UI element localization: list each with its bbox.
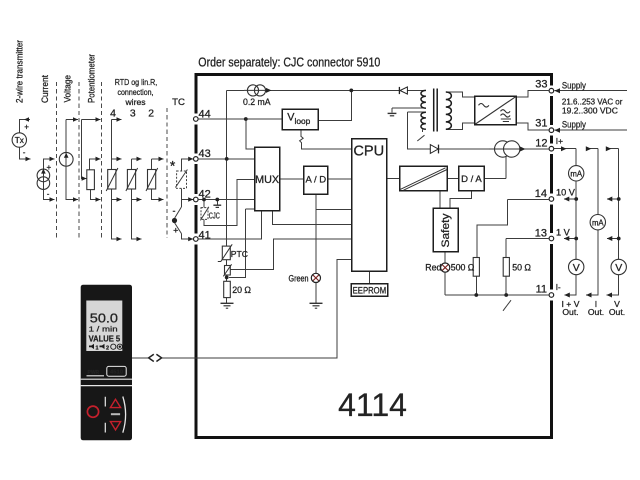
svg-text:+: + [173, 226, 178, 236]
svg-text:500 Ω: 500 Ω [451, 262, 475, 272]
svg-text:CPU: CPU [353, 143, 384, 159]
svg-text:0.2 mA: 0.2 mA [243, 97, 271, 107]
svg-text:mA: mA [570, 170, 582, 179]
svg-text:mA: mA [592, 218, 604, 227]
svg-text:Green: Green [289, 274, 309, 284]
svg-text:Current: Current [40, 75, 50, 103]
svg-text:I+: I+ [556, 136, 563, 146]
svg-text:RTD og lin.R,: RTD og lin.R, [115, 77, 158, 87]
svg-text:11: 11 [536, 284, 547, 296]
svg-text:Order separately: CJC connecto: Order separately: CJC connector 5910 [198, 54, 380, 69]
svg-text:TC: TC [172, 97, 185, 108]
svg-text:V: V [573, 262, 580, 274]
svg-text:V: V [615, 262, 622, 274]
svg-text:20 Ω: 20 Ω [232, 285, 251, 295]
svg-text:Out.: Out. [562, 307, 578, 317]
svg-text:PWR: PWR [88, 370, 100, 376]
svg-text:-: - [47, 190, 50, 199]
svg-text:+: + [47, 163, 52, 172]
svg-text:D / A: D / A [461, 174, 482, 185]
svg-text:4: 4 [110, 109, 116, 120]
svg-text:EEPROM: EEPROM [353, 284, 387, 295]
svg-text:+: + [24, 123, 29, 132]
svg-text:Supply: Supply [562, 120, 586, 130]
svg-text:-: - [173, 206, 176, 216]
svg-text:MUX: MUX [255, 174, 279, 186]
svg-text:14: 14 [535, 188, 547, 200]
svg-text:1 / min: 1 / min [89, 325, 118, 334]
svg-text:PTC: PTC [231, 249, 248, 259]
svg-text:4114: 4114 [338, 387, 407, 423]
svg-text:12: 12 [535, 138, 547, 150]
svg-text:*: * [170, 158, 176, 174]
svg-text:A / D: A / D [306, 175, 327, 186]
svg-text:-: - [23, 148, 26, 157]
svg-text:50.0: 50.0 [90, 311, 118, 326]
svg-text:19.2..300 VDC: 19.2..300 VDC [562, 106, 618, 116]
svg-text:connection,: connection, [118, 87, 154, 97]
svg-text:Out.: Out. [609, 307, 625, 317]
svg-text:33: 33 [535, 78, 547, 90]
svg-text:Voltage: Voltage [63, 75, 73, 103]
svg-text:Supply: Supply [562, 80, 586, 90]
svg-text:Red: Red [425, 262, 441, 272]
svg-text:41: 41 [199, 230, 211, 242]
svg-text:3: 3 [130, 109, 136, 120]
svg-text:10 V: 10 V [556, 188, 576, 198]
svg-text:Safety: Safety [440, 213, 452, 248]
svg-text:1 V: 1 V [556, 227, 571, 237]
svg-text:50 Ω: 50 Ω [512, 262, 531, 272]
svg-text:2: 2 [148, 109, 154, 120]
svg-text:13: 13 [535, 228, 547, 240]
svg-text:31: 31 [535, 117, 547, 129]
svg-text:4510: 4510 [110, 370, 123, 376]
svg-text:Potentiometer: Potentiometer [87, 54, 97, 103]
svg-text:CJC: CJC [209, 211, 220, 220]
svg-text:I-: I- [556, 283, 561, 292]
svg-text:VALUE 5: VALUE 5 [89, 334, 121, 343]
svg-text:2: 2 [106, 346, 109, 352]
svg-text:2-wire transmitter: 2-wire transmitter [15, 40, 25, 103]
svg-text:Tx: Tx [15, 136, 24, 145]
svg-text:Out.: Out. [588, 307, 604, 317]
svg-text:wires: wires [124, 97, 145, 107]
svg-text:1: 1 [96, 346, 99, 352]
